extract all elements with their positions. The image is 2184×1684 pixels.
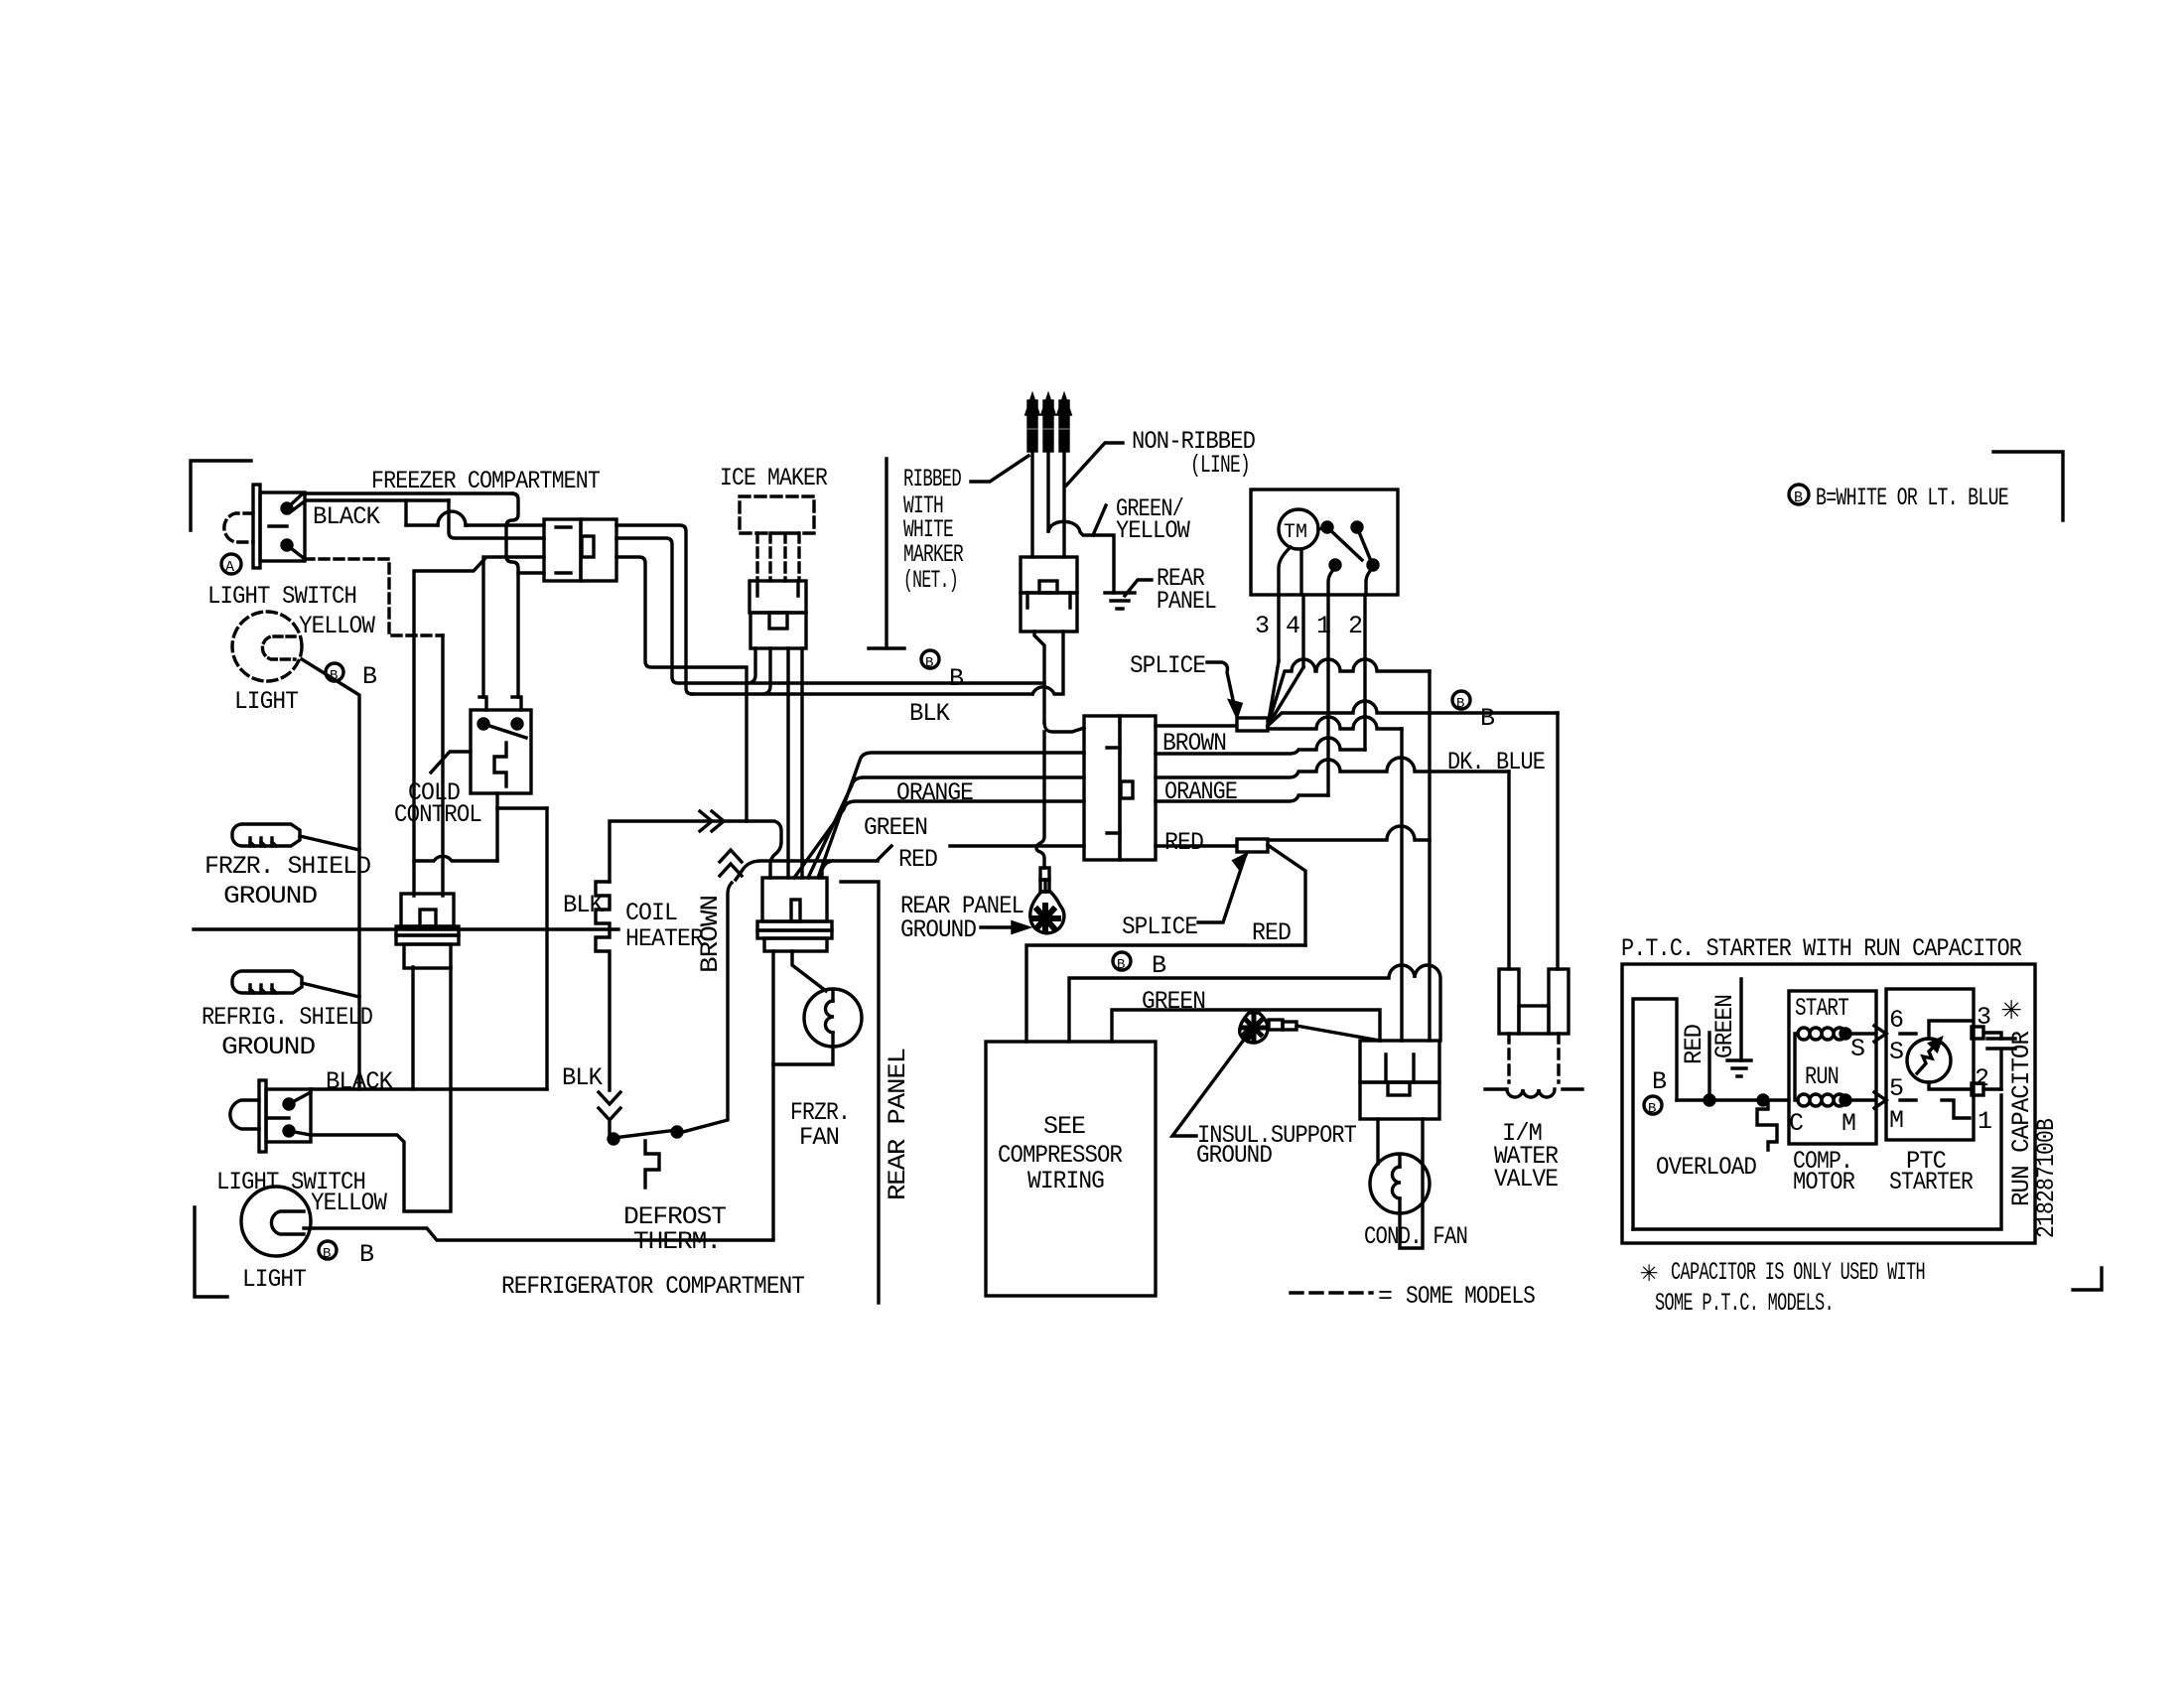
connector J5 (frzr fan) body: [762, 878, 827, 921]
defrost therm step: [645, 1141, 659, 1188]
wire B from compressor: [1026, 945, 1305, 1042]
wire refrig shield ground pointer: [302, 983, 359, 997]
svg-text:4: 4: [1286, 612, 1299, 640]
svg-text:GREEN: GREEN: [1710, 995, 1739, 1058]
svg-text:SOME P.T.C. MODELS.: SOME P.T.C. MODELS.: [1655, 1289, 1834, 1318]
svg-text:B: B: [359, 1240, 374, 1269]
light L1 (dashed circle): [232, 612, 302, 681]
cap terminal squares: [1972, 1027, 1983, 1039]
wire light1 B diagonal: [302, 659, 359, 1089]
svg-text:(LINE): (LINE): [1190, 451, 1250, 480]
light L2: [241, 1187, 311, 1256]
wire dk blue drop to valve left leg: [1507, 772, 1510, 969]
wire J7 right leg and return: [1400, 1119, 1423, 1248]
wire splice1 to B line: [1268, 701, 1558, 726]
splice SP1: [1237, 718, 1268, 731]
rear panel ground lug: [1030, 892, 1064, 933]
wire cold control bottom stub: [495, 793, 498, 861]
wire J7 left leg: [1376, 1119, 1379, 1164]
svg-text:1: 1: [1978, 1107, 1991, 1136]
svg-text:RED: RED: [1252, 918, 1291, 947]
ground rear panel (plug): [1105, 593, 1135, 609]
svg-text:LIGHT: LIGHT: [234, 687, 299, 716]
wire dashed-yellow drop to J2: [441, 635, 444, 896]
svg-text:B: B: [323, 1246, 331, 1262]
splice SP2: [1237, 839, 1268, 852]
svg-text:WIRING: WIRING: [1027, 1167, 1104, 1195]
wire frzr shield ground pointer: [300, 836, 359, 850]
dashed yellow route: [305, 559, 443, 635]
S1 contact top: [282, 503, 292, 513]
svg-text:BROWN: BROWN: [696, 896, 725, 973]
light L1 filament: [262, 636, 295, 659]
svg-text:B: B: [925, 655, 933, 671]
wire J5 right leg to fan: [792, 951, 826, 991]
svg-text:BLACK: BLACK: [326, 1067, 393, 1096]
node B circled right: [1452, 691, 1470, 709]
wire plug left leg jog: [1034, 631, 1044, 723]
svg-text:FREEZER COMPARTMENT: FREEZER COMPARTMENT: [371, 467, 601, 495]
connector frzr shield ground lug: [232, 824, 300, 846]
wire long vertical to black line: [545, 808, 548, 1089]
svg-text:OVERLOAD: OVERLOAD: [1656, 1153, 1756, 1182]
svg-text:FRZR. SHIELD: FRZR. SHIELD: [205, 852, 370, 881]
wire h867 with hop over x446: [414, 856, 497, 861]
svg-text:CAPACITOR IS ONLY USED WITH: CAPACITOR IS ONLY USED WITH: [1671, 1258, 1925, 1287]
svg-text:2: 2: [1975, 1064, 1988, 1093]
prong right (non-ribbed): [1058, 396, 1070, 414]
wire J2 left leg down: [411, 967, 414, 1089]
wire va vertical: [1428, 671, 1431, 1041]
svg-text:CONTROL: CONTROL: [394, 800, 481, 829]
svg-text:FAN: FAN: [799, 1123, 839, 1152]
wire h497 jog down to cold control right: [506, 493, 518, 697]
connector J3 notch: [769, 613, 787, 629]
connector J4 lower: [1021, 593, 1077, 631]
wire S2 yellow: [289, 967, 451, 1211]
wire brown vertical with up chevrons: [720, 850, 742, 876]
ptc internal wiring: [1900, 1021, 2001, 1039]
svg-text:A: A: [225, 559, 234, 576]
svg-text:SOME MODELS: SOME MODELS: [1406, 1282, 1535, 1311]
svg-text:RED: RED: [1680, 1025, 1708, 1064]
water valve dashed leads: [1509, 1034, 1559, 1082]
S2 contacts: [284, 1099, 294, 1109]
svg-text:6: 6: [1889, 1006, 1903, 1035]
node A circled: [221, 554, 241, 574]
wire light2 B: [304, 1228, 773, 1240]
wire B drop to valve right leg: [1556, 713, 1559, 969]
svg-text:GROUND: GROUND: [1196, 1141, 1272, 1170]
light switch S2 body: [266, 1089, 311, 1142]
frzr fan coil: [825, 1001, 834, 1033]
connector J3 lower: [751, 613, 806, 648]
pointer to lug: [981, 925, 1013, 928]
legend some models: [1291, 1291, 1372, 1294]
wire J1 row2 right to h688: [616, 538, 1044, 683]
svg-text:LIGHT SWITCH: LIGHT SWITCH: [207, 582, 356, 611]
wire chevrons down: [599, 1092, 620, 1120]
wire green/yellow hop to ground: [1048, 521, 1114, 593]
svg-text:BLK: BLK: [909, 699, 950, 728]
pointer green/yellow: [1093, 505, 1106, 535]
connector J1 freezer (right half): [581, 519, 616, 581]
wire run to ptc: [1845, 1092, 1886, 1108]
S2 bulb: [230, 1100, 259, 1129]
light switch S2 plate: [259, 1080, 266, 1152]
cond fan motor: [1370, 1154, 1430, 1213]
connector J1 notch: [582, 536, 594, 557]
light switch S1 body: [260, 492, 305, 561]
svg-text:BLK: BLK: [562, 1063, 603, 1092]
timer contacts: [1322, 522, 1332, 532]
wire bundle row4-left to J5: [794, 801, 1084, 878]
svg-text:ICE MAKER: ICE MAKER: [720, 464, 828, 492]
node B circled (light1): [326, 663, 343, 681]
compressor box: [986, 1042, 1156, 1296]
pointer splice2: [1198, 860, 1244, 922]
wire J1 row1 right to BLK drop: [616, 525, 692, 694]
connector J7 cond fan: [1360, 1041, 1439, 1082]
svg-text:DK. BLUE: DK. BLUE: [1447, 748, 1545, 776]
connector J6 (main harness): [1084, 716, 1120, 860]
corner bracket top-right: [1993, 452, 2063, 520]
svg-text:REFRIG. SHIELD: REFRIG. SHIELD: [202, 1003, 372, 1032]
prong left (ribbed): [1026, 396, 1038, 414]
wire lug to connector corner: [1297, 1026, 1380, 1041]
svg-text:RIBBED: RIBBED: [903, 465, 961, 493]
overload zigzag: [1757, 1100, 1777, 1150]
svg-text:PANEL: PANEL: [1157, 587, 1216, 616]
svg-text:GROUND: GROUND: [223, 882, 317, 911]
svg-text:B: B: [1652, 1067, 1667, 1096]
wire white NET continue to rear panel ground lug with hop: [1036, 732, 1044, 868]
wire chevrons right on h827: [700, 811, 724, 831]
wire to defrost contact: [608, 1120, 611, 1136]
ptc starter box: [1886, 989, 1974, 1140]
svg-text:B=WHITE OR LT. BLUE: B=WHITE OR LT. BLUE: [1816, 484, 2008, 512]
node B circled compressor: [1113, 952, 1131, 970]
svg-text:2: 2: [1348, 612, 1362, 640]
PTC main bus: [1677, 1098, 1789, 1101]
wire row2 to timer leg2: [1156, 738, 1365, 754]
wire splice2 red down: [1268, 845, 1305, 945]
divider rear panel vertical: [841, 882, 879, 1303]
GREEN stub with ground: [1739, 979, 1742, 1060]
svg-text:C: C: [1789, 1109, 1803, 1138]
svg-text:B: B: [1117, 957, 1125, 973]
thermistor circle: [1907, 1039, 1951, 1082]
wire GREEN from compressor: [1069, 965, 1440, 1042]
svg-text:1: 1: [1316, 612, 1330, 640]
S1 contact bar: [269, 524, 287, 527]
PTC outer box: [1622, 964, 2035, 1243]
pointer rear panel: [1125, 580, 1152, 596]
svg-text:REAR PANEL: REAR PANEL: [884, 1049, 912, 1200]
svg-text:B: B: [362, 662, 377, 691]
insul support ground lug: [1240, 1013, 1268, 1043]
cold control contacts: [478, 719, 488, 729]
timer internal wires: [1318, 527, 1371, 561]
svg-text:B: B: [1648, 1101, 1656, 1117]
PTC inner left wires: [1633, 999, 1677, 1229]
svg-text:✳: ✳: [1640, 1257, 1658, 1291]
corner bracket bottom-right: [2073, 1268, 2102, 1290]
svg-text:SPLICE: SPLICE: [1130, 651, 1205, 680]
wire J1 row4 stub: [518, 571, 544, 574]
defrost therm contact left: [609, 1134, 618, 1144]
wire switch1 to connector J1 row1 with hop: [406, 523, 438, 526]
defrost therm contact right: [672, 1127, 682, 1137]
connector J3 ice maker upper: [750, 581, 806, 613]
corner bracket bottom-left: [195, 1207, 227, 1297]
svg-text:TM: TM: [1284, 521, 1307, 544]
svg-text:B: B: [1152, 951, 1166, 980]
pointer ribbed: [971, 456, 1028, 482]
note B=WHITE OR LT. BLUE: [1789, 485, 1809, 504]
connector J4 line plug upper: [1021, 557, 1077, 593]
winding common: [1795, 1034, 1798, 1100]
wire row4 to timer leg1: [1156, 795, 1328, 801]
wire row1 tap down: [404, 500, 407, 525]
svg-text:HEATER: HEATER: [625, 924, 704, 953]
ice maker leads (dashed): [757, 533, 799, 581]
wire fan return: [773, 1047, 833, 1064]
RED stub: [1707, 1033, 1710, 1100]
svg-text:218287100B: 218287100B: [2032, 1118, 2061, 1238]
wire h827 to heater: [610, 821, 747, 882]
connector J4 notch: [1039, 581, 1057, 593]
svg-text:S: S: [1889, 1038, 1903, 1066]
svg-text:COND. FAN: COND. FAN: [1364, 1222, 1467, 1251]
corner bracket top-left: [191, 461, 251, 530]
water valve legs: [1499, 969, 1519, 1034]
wire red left segment into J5: [736, 846, 891, 880]
connector refrig shield ground lug: [232, 971, 302, 993]
wire row5 red to splice2: [1156, 844, 1237, 847]
wire row3 dk blue: [1156, 758, 1509, 777]
wire splice1 to cond-fan feed h676: [1268, 659, 1430, 726]
wire cold control tap right to long vertical: [497, 806, 547, 809]
lug tail: [1269, 1020, 1283, 1030]
wire splice1 fan to timer leg4: [1268, 667, 1303, 726]
connector rear-panel-ground lug tail: [1040, 868, 1049, 880]
lug star: [1032, 906, 1058, 931]
wires J3 bottom legs: [749, 648, 755, 683]
timer legs: [1277, 595, 1280, 661]
light switch S1 plate: [253, 485, 260, 568]
svg-text:RED: RED: [1164, 828, 1203, 857]
wire J1 row3 right to defrost drop: [616, 557, 747, 821]
light switch S1 bulb (dashed): [224, 513, 253, 542]
wire cond fan feed: [1112, 1010, 1380, 1042]
svg-text:✳: ✳: [2001, 992, 2021, 1030]
svg-text:BLACK: BLACK: [313, 502, 380, 531]
cold control terminals: [479, 697, 521, 710]
svg-text:S: S: [1850, 1035, 1864, 1063]
prong middle: [1042, 396, 1054, 414]
wire splice1 fan to timer leg3: [1268, 661, 1279, 726]
defrost therm arm: [614, 1130, 677, 1138]
svg-text:REFRIGERATOR COMPARTMENT: REFRIGERATOR COMPARTMENT: [501, 1272, 805, 1301]
svg-text:START: START: [1795, 994, 1849, 1023]
wire white NET drop to row1: [1044, 723, 1084, 732]
wire J1 row3 to left vertical: [414, 557, 544, 896]
svg-text:(NET.): (NET.): [903, 566, 958, 595]
wire S1 yellow to dashed box: [287, 545, 305, 559]
svg-text:MOTOR: MOTOR: [1793, 1168, 1855, 1196]
wire S1 black fork: [287, 493, 512, 508]
run winding: [1798, 1094, 1845, 1106]
svg-text:MARKER: MARKER: [903, 540, 964, 569]
wire to J1 row2: [449, 500, 544, 538]
wire S2 black: [289, 1089, 311, 1104]
water valve coil: [1485, 1087, 1582, 1090]
svg-text:YELLOW: YELLOW: [311, 1189, 387, 1217]
timer box: [1251, 490, 1398, 595]
wire start to ptc: [1845, 1026, 1886, 1042]
pointer non-ribbed: [1066, 443, 1123, 486]
cold control CC box: [471, 710, 531, 793]
svg-text:B: B: [1456, 696, 1464, 712]
node B circled (light2): [319, 1241, 337, 1259]
svg-text:M: M: [1889, 1106, 1903, 1135]
wire red row5-left: [950, 844, 1084, 847]
svg-text:B: B: [1794, 490, 1803, 506]
wire J5 left leg down: [771, 951, 774, 1238]
svg-text:P.T.C. STARTER WITH RUN CAPACI: P.T.C. STARTER WITH RUN CAPACITOR: [1621, 934, 2022, 963]
frzr fan motor: [804, 989, 862, 1047]
run capacitor plates: [1987, 1039, 2015, 1089]
wire splice2 to va drop: [1268, 826, 1430, 840]
wire bundle row3-left to J5: [808, 777, 1084, 878]
svg-text:COIL: COIL: [625, 899, 677, 927]
cond fan coil: [1392, 1167, 1401, 1198]
pointer insul support: [1172, 1036, 1247, 1136]
S1 contact bottom: [282, 540, 292, 550]
wire row1 brown to splice1: [1156, 724, 1237, 727]
node B circled mid: [921, 650, 939, 668]
PTC bottom bus: [1633, 1095, 2001, 1229]
svg-text:VALVE: VALVE: [1494, 1165, 1558, 1193]
thermistor arrow: [1917, 1042, 1939, 1073]
cold control pointer: [431, 752, 471, 772]
svg-text:M: M: [1842, 1109, 1855, 1138]
wire bundle row2-left to J5: [818, 753, 1084, 878]
wire brown continue with hops to cond fan drop: [1268, 717, 1402, 729]
svg-text:THERM.: THERM.: [633, 1227, 721, 1256]
cold control inner step: [494, 743, 506, 786]
svg-text:=: =: [1378, 1282, 1392, 1311]
svg-text:GROUND: GROUND: [900, 915, 976, 944]
svg-text:LIGHT: LIGHT: [242, 1265, 307, 1294]
svg-text:B: B: [949, 664, 964, 693]
pointer splice1: [1207, 662, 1235, 709]
wire cond fan drop vb: [1400, 729, 1403, 1041]
svg-text:COMPRESSOR: COMPRESSOR: [998, 1141, 1123, 1170]
divider freezer column with end bar: [885, 459, 887, 645]
svg-text:YELLOW: YELLOW: [1116, 516, 1190, 545]
connector J1 ticks: [556, 527, 571, 573]
ice maker box (dashed): [740, 496, 814, 533]
svg-text:3: 3: [1255, 612, 1269, 640]
cold control arm: [483, 724, 526, 738]
start winding: [1798, 1028, 1845, 1040]
hop BLK over plug left leg: [1032, 631, 1063, 694]
svg-text:RUN: RUN: [1805, 1062, 1839, 1091]
svg-text:SEE: SEE: [1043, 1112, 1085, 1141]
svg-text:YELLOW: YELLOW: [299, 612, 375, 640]
timer motor TM: [1279, 509, 1318, 549]
svg-text:GROUND: GROUND: [221, 1033, 315, 1061]
comp motor box: [1789, 991, 1876, 1144]
wire row3 tap to cold control left: [481, 557, 484, 697]
svg-text:RED: RED: [898, 845, 937, 874]
light L2 filament: [271, 1211, 304, 1234]
svg-text:SPLICE: SPLICE: [1122, 912, 1197, 941]
wire BLK horizontal to plug: [692, 692, 1032, 695]
connector J2 box upper: [401, 894, 454, 926]
coil heater zigzag: [596, 882, 610, 1090]
connector J1 freezer (left half): [544, 519, 581, 581]
divider freezer/refrigerator left: [194, 927, 618, 930]
svg-text:B: B: [1480, 704, 1495, 733]
svg-text:GREEN: GREEN: [864, 813, 927, 842]
svg-text:STARTER: STARTER: [1889, 1168, 1974, 1196]
